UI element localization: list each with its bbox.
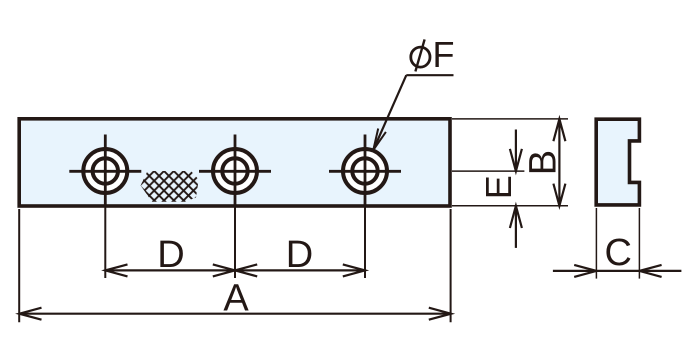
leader arrowhead [373,129,386,151]
hole 3 counterbore outer circle [343,149,387,193]
B arrow top [553,119,565,141]
leader diagonal line to hole 3 [373,75,406,150]
extension line top edge (B) [452,118,568,120]
svg-text:D: D [286,234,313,276]
hole 3 extension line down to D dimension [364,206,366,278]
hole 2 centerline horizontal [199,170,271,173]
hole 1 inner circle [93,158,118,183]
phi symbol of phiF [411,47,430,67]
A left arrow [19,308,41,320]
svg-text:D: D [157,234,184,276]
hole 2 extension line down to D dimension [234,206,236,278]
extension line hole centerline (E) [452,170,524,172]
D middle arrows (crossing) [213,264,235,276]
hole 3 inner circle [352,158,377,183]
hole 1 centerline horizontal [69,170,141,173]
E arrow pointing up [510,206,522,228]
hole 2 inner circle [222,158,247,183]
hole 3 centerline horizontal [329,170,401,173]
A left extension line [18,209,20,322]
D left arrow [105,264,127,276]
svg-text:A: A [223,277,249,319]
knurled/hatched patch [141,171,199,202]
B arrow bottom [553,184,565,206]
C right extension line [638,208,640,279]
side view body with notch [596,119,639,205]
E dimension line upper segment [515,130,517,172]
A dimension line [19,313,451,315]
E arrow pointing down [510,149,522,171]
extension line bottom edge (B,E) [452,205,568,207]
hole 3 centerline vertical [364,135,367,207]
svg-text:E: E [478,175,519,199]
B dimension line [558,119,560,206]
hole 1 counterbore outer circle [83,149,127,193]
C dimension line [553,270,682,272]
svg-text:B: B [522,150,564,175]
C left arrow (outside, pointing right) [574,265,596,277]
C right arrow (outside, pointing left) [639,265,661,277]
hole 1 centerline vertical [104,135,107,207]
A right extension line [450,209,452,322]
E dimension line lower segment [515,206,517,248]
plate body (front view) [19,119,450,206]
svg-text:C: C [604,232,631,274]
svg-text:F: F [433,34,455,75]
C left extension line [595,208,597,279]
hole 1 extension line down to D dimension [104,206,106,278]
hole 2 counterbore outer circle [213,149,257,193]
D right arrow [343,264,365,276]
hole 2 centerline vertical [234,135,237,207]
D dimension line [105,269,365,271]
A right arrow [429,308,451,320]
leader horizontal shelf for phiF [406,74,453,76]
